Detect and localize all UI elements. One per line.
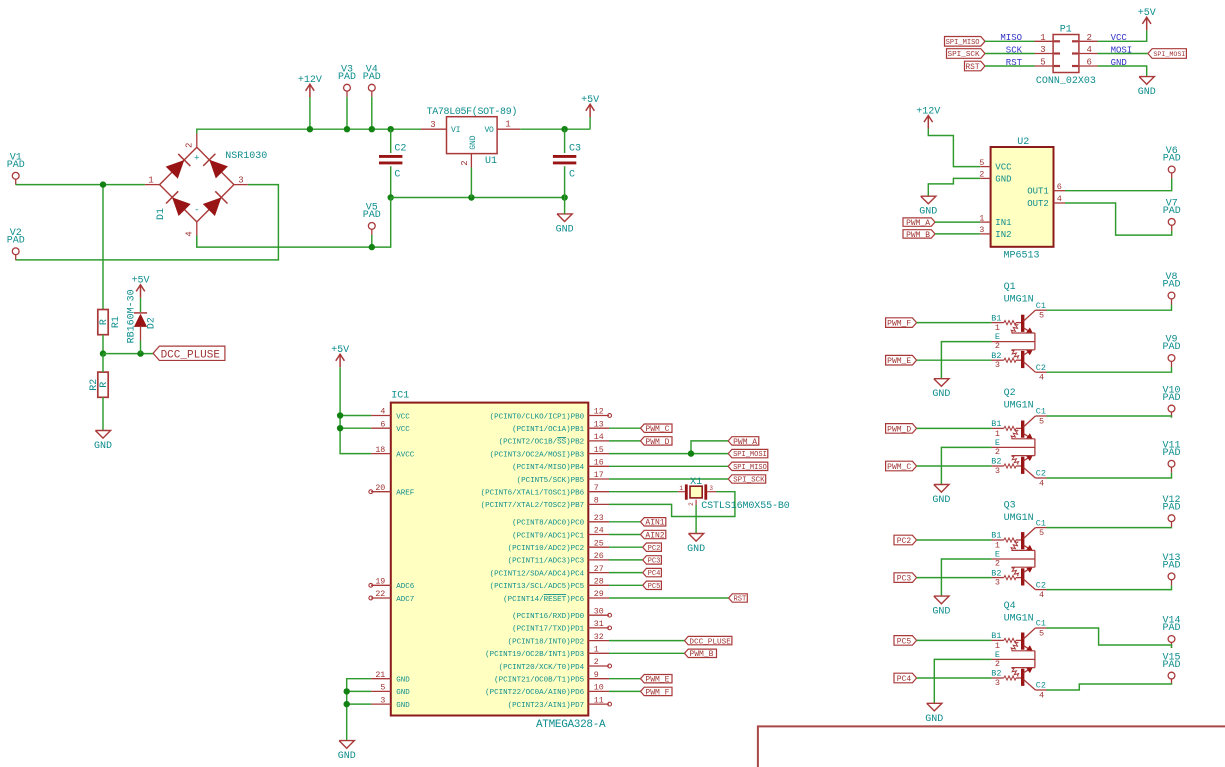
global label PWM_E at IC1 bbox=[641, 675, 673, 685]
svg-text:PWM_E: PWM_E bbox=[645, 676, 669, 685]
svg-text:GND: GND bbox=[338, 751, 356, 762]
global label SPI_MOSI at IC1 bbox=[728, 449, 768, 459]
junction at (691.0,453.6) bbox=[688, 450, 694, 456]
IC1 pin 4 (VCC) left bbox=[371, 415, 391, 417]
U2 pin 5 (VCC) bbox=[980, 166, 990, 168]
IC1 pin 26 ((PCINT11/ADC3)PC3) right bbox=[588, 559, 609, 561]
U1 pin 1 (VO) bbox=[497, 128, 520, 130]
U2 pin 6 (OUT1) bbox=[1054, 190, 1066, 192]
svg-text:20: 20 bbox=[375, 484, 385, 493]
svg-text:C2: C2 bbox=[1036, 580, 1046, 590]
svg-text:PWM_F: PWM_F bbox=[645, 688, 669, 697]
wire U2 GND bbox=[928, 178, 980, 196]
svg-text:PAD: PAD bbox=[1162, 660, 1180, 671]
svg-text:(PCINT12/SDA/ADC4)PC4: (PCINT12/SDA/ADC4)PC4 bbox=[490, 570, 585, 578]
wire X1 pin2 to gnd bbox=[695, 505, 697, 534]
global label DCC_PLUSE (large) bbox=[153, 346, 225, 361]
wire V5 drop bbox=[371, 235, 373, 247]
wire VCC pin6 branch bbox=[340, 427, 371, 429]
svg-text:(PCINT3/OC2A/MOSI)PB3: (PCINT3/OC2A/MOSI)PB3 bbox=[490, 451, 585, 459]
svg-text:PWM_F: PWM_F bbox=[887, 319, 911, 328]
IC1 pin 5 (GND) left bbox=[371, 690, 391, 692]
junction at (390.7,197.5) bbox=[388, 194, 394, 200]
svg-text:UMG1N: UMG1N bbox=[1004, 401, 1034, 412]
svg-text:14: 14 bbox=[594, 433, 604, 442]
svg-text:22: 22 bbox=[375, 590, 385, 599]
global label PWM_E at Q1 bbox=[886, 355, 917, 366]
ground under R2 bbox=[94, 431, 112, 453]
svg-text:B1: B1 bbox=[991, 631, 1001, 641]
svg-text:1: 1 bbox=[594, 646, 599, 655]
wire PWM_B to U2 bbox=[935, 233, 980, 235]
svg-text:PAD: PAD bbox=[1162, 280, 1180, 291]
svg-text:PC2: PC2 bbox=[648, 545, 661, 553]
svg-text:IN1: IN1 bbox=[995, 218, 1011, 228]
wire GND pin5 branch bbox=[347, 690, 371, 692]
overbar on RESET (PC6 name) bbox=[544, 594, 567, 596]
svg-text:3: 3 bbox=[380, 696, 385, 705]
svg-text:31: 31 bbox=[594, 620, 604, 629]
svg-text:(PCINT0/CLKO/ICP1)PB0: (PCINT0/CLKO/ICP1)PB0 bbox=[490, 413, 585, 421]
svg-text:OUT2: OUT2 bbox=[1027, 199, 1049, 209]
IC1 pin 1 ((PCINT19/OC2B/INT1)PD3) right bbox=[588, 652, 609, 654]
svg-text:PAD: PAD bbox=[1162, 448, 1180, 459]
capacitor C2 bbox=[379, 156, 402, 163]
svg-text:1: 1 bbox=[995, 429, 1000, 439]
ground at Q4 bbox=[925, 703, 943, 725]
wire PWM_C to Q2 B2 bbox=[917, 465, 992, 467]
svg-text:AIN2: AIN2 bbox=[645, 531, 664, 540]
global label PC2 at IC1 bbox=[643, 543, 662, 553]
wire PD5 to PWM_E bbox=[609, 678, 641, 680]
svg-text:DCC_PLUSE: DCC_PLUSE bbox=[689, 638, 731, 646]
wire +12V to U2 VCC bbox=[928, 129, 980, 167]
svg-text:PC3: PC3 bbox=[897, 574, 912, 583]
svg-text:SPI_SCK: SPI_SCK bbox=[948, 51, 980, 59]
svg-text:VCC: VCC bbox=[396, 413, 410, 421]
svg-text:1: 1 bbox=[995, 540, 1000, 550]
svg-text:VCC: VCC bbox=[396, 426, 410, 434]
svg-text:1: 1 bbox=[1040, 33, 1045, 43]
wire PD6 to PWM_F bbox=[609, 690, 641, 692]
svg-text:(PCINT20/XCK/T0)PD4: (PCINT20/XCK/T0)PD4 bbox=[499, 664, 585, 672]
P1 pin 3 (SCK) bbox=[1035, 53, 1054, 55]
IC1 pin 19 (ADC6) left bbox=[371, 584, 391, 586]
svg-text:UMG1N: UMG1N bbox=[1004, 513, 1034, 524]
IC1 pin 24 ((PCINT9/ADC1)PC1) right bbox=[588, 534, 609, 536]
svg-text:RST: RST bbox=[733, 596, 746, 604]
wire OUT2 to V7 bbox=[1065, 203, 1172, 235]
wire PD3 to PWM_B bbox=[609, 652, 685, 654]
svg-text:3: 3 bbox=[995, 466, 1000, 476]
pad V9 bbox=[1162, 335, 1180, 367]
svg-text:RST: RST bbox=[965, 63, 979, 72]
wire R1 to D2 node bbox=[103, 353, 153, 355]
svg-text:3: 3 bbox=[995, 577, 1000, 587]
svg-text:GND: GND bbox=[687, 544, 705, 555]
svg-text:(PCINT23/AIN1)PD7: (PCINT23/AIN1)PD7 bbox=[508, 702, 585, 710]
junction at (340.1,428.2) bbox=[337, 425, 343, 431]
wire PB1 to PWM_C bbox=[609, 427, 641, 429]
power +12V at U2 bbox=[916, 106, 940, 128]
svg-text:GND: GND bbox=[995, 174, 1011, 184]
wire bridge pin2 up to +12V rail bbox=[196, 236, 198, 248]
svg-text:5: 5 bbox=[1039, 416, 1044, 426]
global label PC4 at Q4 bbox=[894, 673, 917, 684]
svg-text:PAD: PAD bbox=[1162, 561, 1180, 572]
IC1 pin 15 ((PCINT3/OC2A/MOSI)PB3) right bbox=[588, 453, 609, 455]
wire P1 MOSI to SPI_MOSI bbox=[1098, 53, 1148, 55]
global label PWM_D at Q2 bbox=[886, 424, 917, 435]
svg-text:Q3: Q3 bbox=[1004, 501, 1016, 512]
svg-text:GND: GND bbox=[396, 689, 410, 697]
svg-text:26: 26 bbox=[594, 552, 604, 561]
svg-text:PAD: PAD bbox=[363, 72, 381, 83]
pad V14 bbox=[1162, 616, 1180, 648]
svg-text:4: 4 bbox=[1039, 478, 1044, 488]
svg-text:3: 3 bbox=[995, 678, 1000, 688]
wire ground rail under U1 bbox=[391, 197, 565, 199]
svg-text:UMG1N: UMG1N bbox=[1004, 295, 1034, 306]
svg-text:PAD: PAD bbox=[1162, 623, 1180, 634]
global label RST at P1 bbox=[965, 61, 986, 72]
IC1 pin 12 ((PCINT0/CLKO/ICP1)PB0) right bbox=[588, 415, 609, 417]
svg-text:2: 2 bbox=[1087, 33, 1092, 43]
sheet title block border bbox=[758, 726, 1225, 767]
no-connect circle at (370.8,598.0) bbox=[369, 596, 373, 600]
svg-text:(PCINT2/OC1B/SS)PB2: (PCINT2/OC1B/SS)PB2 bbox=[499, 439, 585, 447]
IC1 pin 16 ((PCINT4/MISO)PB4) right bbox=[588, 465, 609, 467]
svg-text:2: 2 bbox=[688, 502, 695, 506]
wire R1 bottom bbox=[102, 335, 104, 354]
svg-text:2: 2 bbox=[995, 341, 1000, 351]
svg-text:5: 5 bbox=[380, 684, 385, 693]
global label RST at IC1 bbox=[729, 594, 748, 604]
svg-text:RB160M-30: RB160M-30 bbox=[126, 289, 137, 343]
wire PC4 label bbox=[609, 572, 643, 574]
wire PWM_E to Q1 B2 bbox=[917, 359, 992, 361]
global label AIN1 bbox=[641, 518, 666, 528]
svg-text:Q2: Q2 bbox=[1004, 388, 1016, 399]
global label PC5 at Q4 bbox=[894, 636, 917, 647]
global label SPI_SCK at P1 bbox=[947, 49, 986, 60]
svg-text:ADC6: ADC6 bbox=[396, 583, 415, 591]
global label SPI_MISO at IC1 bbox=[728, 462, 768, 472]
svg-text:29: 29 bbox=[594, 590, 604, 599]
power +5V at IC1 bbox=[331, 345, 349, 367]
junction at (390.7,129.2) bbox=[388, 126, 394, 132]
svg-text:(PCINT19/OC2B/INT1)PD3: (PCINT19/OC2B/INT1)PD3 bbox=[485, 651, 585, 659]
svg-text:GND: GND bbox=[469, 135, 478, 150]
resistor R1 bbox=[98, 310, 122, 335]
svg-text:IN2: IN2 bbox=[995, 230, 1011, 240]
pad V10 bbox=[1162, 385, 1180, 417]
svg-text:TA78L05F(SOT-89): TA78L05F(SOT-89) bbox=[427, 106, 517, 118]
wire PWM_A to U2 bbox=[935, 221, 980, 223]
svg-text:3: 3 bbox=[430, 120, 435, 130]
svg-text:Q4: Q4 bbox=[1004, 601, 1016, 612]
global label PWM_B at U2 bbox=[903, 230, 935, 240]
IC1 pin 10 ((PCINT22/OC0A/AIN0)PD6) right bbox=[588, 690, 609, 692]
no-connect circle at (609.6,666.0) bbox=[608, 664, 612, 668]
svg-text:U1: U1 bbox=[485, 156, 497, 167]
svg-text:2: 2 bbox=[594, 658, 599, 667]
global label PWM_D bbox=[641, 437, 673, 447]
svg-text:GND: GND bbox=[396, 677, 410, 685]
svg-text:(PCINT8/ADC0)PC0: (PCINT8/ADC0)PC0 bbox=[512, 520, 585, 528]
P1 pin 2 (VCC) bbox=[1079, 40, 1098, 42]
wire PB5 to SPI_SCK bbox=[609, 478, 728, 480]
wire RST to P1 bbox=[985, 65, 1035, 67]
wire PC3 label bbox=[609, 559, 643, 561]
svg-text:28: 28 bbox=[594, 578, 604, 587]
ground at Q2 bbox=[932, 485, 950, 507]
svg-text:U2: U2 bbox=[1017, 137, 1029, 148]
svg-text:PWM_D: PWM_D bbox=[645, 438, 669, 447]
svg-text:12: 12 bbox=[594, 408, 604, 417]
IC1 pin 31 ((PCINT17/TXD)PD1) right bbox=[588, 627, 609, 629]
svg-text:19: 19 bbox=[375, 578, 385, 587]
global label SPI_MOSI at P1 bbox=[1148, 49, 1187, 59]
overbar on SS (PB2 name) bbox=[557, 437, 566, 439]
IC1 pin 9 ((PCINT21/OC0B/T1)PD5) right bbox=[588, 678, 609, 680]
svg-text:R: R bbox=[99, 382, 110, 388]
svg-text:4: 4 bbox=[1039, 590, 1044, 600]
svg-text:SPI_MISO: SPI_MISO bbox=[946, 39, 980, 47]
svg-text:(PCINT21/OC0B/T1)PD5: (PCINT21/OC0B/T1)PD5 bbox=[494, 677, 585, 685]
svg-text:1: 1 bbox=[995, 641, 1000, 651]
svg-text:6: 6 bbox=[1057, 182, 1062, 192]
svg-text:GND: GND bbox=[932, 495, 950, 506]
wire PC0 to AIN1 bbox=[609, 521, 641, 523]
IC1 pin 7 ((PCINT6/XTAL1/TOSC1)PB6) right bbox=[588, 491, 609, 493]
no-connect circle at (370.8,491.7) bbox=[369, 490, 373, 494]
svg-text:(PCINT18/INT0)PD2: (PCINT18/INT0)PD2 bbox=[508, 638, 585, 646]
svg-text:P1: P1 bbox=[1060, 25, 1072, 36]
wire Q1 C2 to V9 bbox=[1047, 367, 1172, 372]
bridge diode 4-1 (D1 bottom-left) bbox=[166, 191, 191, 216]
global label PWM_A at U2 bbox=[903, 218, 935, 228]
svg-text:AVCC: AVCC bbox=[396, 451, 415, 459]
wire PD2 to DCC_PLUSE bbox=[609, 640, 685, 642]
diode D2 RB160M-30 bbox=[134, 314, 147, 327]
svg-text:PWM_B: PWM_B bbox=[906, 231, 930, 240]
global label PWM_A at IC1 bbox=[728, 437, 759, 447]
svg-text:PAD: PAD bbox=[1162, 393, 1180, 404]
IC1 pin 32 ((PCINT18/INT0)PD2) right bbox=[588, 640, 609, 642]
svg-text:+5V: +5V bbox=[581, 95, 599, 106]
IC1 pin 30 ((PCINT16/RXD)PD0) right bbox=[588, 614, 609, 616]
svg-text:VCC: VCC bbox=[995, 163, 1012, 173]
bridge D1 pin stubs bbox=[145, 184, 160, 186]
svg-text:5: 5 bbox=[1040, 58, 1045, 68]
svg-text:4: 4 bbox=[1057, 194, 1062, 204]
IC1 pin 23 ((PCINT8/ADC0)PC0) right bbox=[588, 521, 609, 523]
svg-text:PC3: PC3 bbox=[648, 557, 661, 565]
svg-text:1: 1 bbox=[679, 485, 683, 492]
svg-text:CONN_02X03: CONN_02X03 bbox=[1036, 76, 1096, 87]
global label PWM_B at IC1 bbox=[685, 649, 717, 659]
svg-text:C2: C2 bbox=[1036, 363, 1046, 373]
svg-text:1: 1 bbox=[995, 323, 1000, 333]
X1 pin stubs bbox=[678, 491, 685, 493]
svg-text:6: 6 bbox=[1087, 58, 1092, 68]
pad V4 bbox=[363, 64, 381, 96]
global label PWM_F at Q1 bbox=[886, 318, 917, 329]
IC1 pin 25 ((PCINT10/ADC2)PC2) right bbox=[588, 546, 609, 548]
IC1 pin 18 (AVCC) left bbox=[371, 453, 391, 455]
svg-text:VO: VO bbox=[485, 126, 495, 135]
U2 pin 3 (IN2) bbox=[980, 233, 990, 235]
wire Q1 C1 to V8 bbox=[1047, 305, 1172, 311]
svg-text:OUT1: OUT1 bbox=[1027, 187, 1049, 197]
wire GND pin3 branch bbox=[347, 703, 371, 705]
wire PWM_D to Q2 B1 bbox=[917, 427, 992, 429]
svg-text:(PCINT22/OC0A/AIN0)PD6: (PCINT22/OC0A/AIN0)PD6 bbox=[485, 689, 585, 697]
global label PC3 at IC1 bbox=[643, 556, 662, 566]
junction at (140.5,353.6) bbox=[137, 350, 143, 356]
svg-text:+5V: +5V bbox=[331, 345, 349, 356]
svg-text:PAD: PAD bbox=[1162, 342, 1180, 353]
svg-text:27: 27 bbox=[594, 565, 604, 574]
wire Q2 E to gnd bbox=[941, 447, 991, 484]
wire Q2 C1 to V10 bbox=[1047, 416, 1172, 418]
wire OUT1 to V6 bbox=[1065, 179, 1172, 191]
svg-text:GND: GND bbox=[1138, 87, 1156, 98]
power +12V top bbox=[298, 75, 322, 97]
svg-text:4: 4 bbox=[380, 408, 385, 417]
svg-text:7: 7 bbox=[594, 484, 599, 493]
global label SPI_MISO at P1 bbox=[945, 37, 986, 47]
svg-text:AREF: AREF bbox=[396, 490, 414, 498]
wire R2 bottom bbox=[102, 397, 104, 430]
global label PWM_C bbox=[641, 424, 673, 434]
svg-text:SPI_SCK: SPI_SCK bbox=[733, 477, 765, 485]
svg-text:PWM_C: PWM_C bbox=[645, 425, 669, 434]
svg-text:AIN1: AIN1 bbox=[645, 519, 664, 528]
svg-text:C1: C1 bbox=[1036, 518, 1046, 528]
svg-text:PC4: PC4 bbox=[897, 675, 912, 684]
wire P1 VCC to +5V bbox=[1098, 30, 1147, 41]
pad V8 bbox=[1162, 272, 1180, 304]
svg-text:5: 5 bbox=[1039, 628, 1044, 638]
pad V6 bbox=[1163, 146, 1181, 178]
bridge rectifier D1 body bbox=[160, 147, 234, 222]
svg-text:B1: B1 bbox=[991, 419, 1001, 429]
wire +5V stub bbox=[589, 117, 591, 129]
svg-text:4: 4 bbox=[1087, 45, 1092, 55]
IC U2 MP6513 body bbox=[991, 147, 1054, 247]
svg-text:25: 25 bbox=[594, 539, 604, 548]
wire Q2 C2 to V11 bbox=[1047, 473, 1172, 478]
svg-text:PC5: PC5 bbox=[648, 583, 661, 591]
no-connect circle at (609.6,615.2) bbox=[608, 613, 612, 617]
svg-text:PC2: PC2 bbox=[897, 537, 912, 546]
svg-text:10: 10 bbox=[594, 684, 604, 693]
svg-text:PWM_E: PWM_E bbox=[887, 357, 911, 366]
svg-text:3: 3 bbox=[238, 176, 243, 186]
svg-text:DCC_PLUSE: DCC_PLUSE bbox=[161, 349, 221, 361]
junction at (103,184.6) bbox=[100, 181, 106, 187]
svg-text:VI: VI bbox=[451, 126, 461, 135]
svg-text:3: 3 bbox=[995, 360, 1000, 370]
svg-text:PWM_B: PWM_B bbox=[689, 650, 713, 659]
svg-text:PWM_A: PWM_A bbox=[906, 219, 930, 228]
wire PC1 to AIN2 bbox=[609, 534, 641, 536]
svg-text:Q1: Q1 bbox=[1004, 282, 1016, 293]
svg-text:GND: GND bbox=[556, 224, 574, 235]
svg-text:SPI_MOSI: SPI_MOSI bbox=[733, 451, 767, 459]
svg-text:+12V: +12V bbox=[298, 75, 322, 86]
svg-text:2: 2 bbox=[995, 659, 1000, 669]
wire Q1 E to gnd bbox=[941, 342, 991, 379]
wire V1 branch down to R1 bbox=[102, 185, 104, 310]
svg-text:32: 32 bbox=[594, 633, 604, 642]
ground at Q1 bbox=[932, 379, 950, 401]
wire C3 gnd stub bbox=[564, 198, 566, 214]
ground at Q3 bbox=[932, 596, 950, 618]
IC1 pin 17 ((PCINT5/SCK)PB5) right bbox=[588, 478, 609, 480]
svg-text:(PCINT17/TXD)PD1: (PCINT17/TXD)PD1 bbox=[512, 626, 585, 634]
wire PC2 to Q3 B1 bbox=[917, 539, 992, 541]
wire Q4 C2 to V15 bbox=[1047, 684, 1172, 690]
capacitor C3 bbox=[553, 156, 576, 163]
svg-text:SPI_MISO: SPI_MISO bbox=[733, 464, 767, 472]
svg-text:4: 4 bbox=[184, 231, 194, 236]
svg-text:CSTLS16M0X55-B0: CSTLS16M0X55-B0 bbox=[701, 501, 790, 512]
global label AIN2 bbox=[641, 530, 666, 540]
pad V11 bbox=[1162, 441, 1180, 473]
wire R1-R2 link bbox=[102, 354, 104, 373]
svg-text:C1: C1 bbox=[1036, 301, 1046, 311]
bridge diode 3-2 (D1 top-right) bbox=[203, 154, 228, 179]
global label PC5 at IC1 bbox=[643, 581, 662, 591]
IC IC1 ATMEGA328-A body bbox=[391, 403, 589, 716]
wire PWM_F to Q1 B1 bbox=[917, 322, 992, 324]
no-connect circle at (609.6,704.1) bbox=[608, 702, 612, 706]
svg-text:C1: C1 bbox=[1036, 407, 1046, 417]
no-connect circle at (609.6,627.9000000000001) bbox=[608, 626, 612, 630]
pad V15 bbox=[1162, 652, 1180, 684]
wire PC6 to RST bbox=[609, 597, 729, 599]
svg-text:(PCINT9/ADC1)PC1: (PCINT9/ADC1)PC1 bbox=[512, 532, 585, 540]
svg-text:3: 3 bbox=[709, 485, 713, 492]
wire C2 bottom bbox=[390, 166, 392, 197]
junction at (471.4,197.5) bbox=[468, 194, 474, 200]
wire SPI_MISO to P1 bbox=[985, 40, 1035, 42]
svg-text:PAD: PAD bbox=[7, 236, 25, 247]
IC1 pin 6 (VCC) left bbox=[371, 427, 391, 429]
junction at (340.1,415.5) bbox=[337, 412, 343, 418]
svg-text:PAD: PAD bbox=[7, 160, 25, 171]
svg-text:C: C bbox=[394, 170, 400, 181]
svg-text:C1: C1 bbox=[1036, 619, 1046, 629]
svg-text:(PCINT14/RESET)PC6: (PCINT14/RESET)PC6 bbox=[503, 596, 585, 604]
wire PB3 branch to PWM_A bbox=[691, 441, 728, 454]
junction at (309.9,129.2) bbox=[307, 126, 313, 132]
svg-text:9: 9 bbox=[594, 671, 599, 680]
pad V2 bbox=[7, 228, 25, 260]
transistor Q1 UMG1N pair bbox=[992, 310, 1047, 372]
svg-text:GND: GND bbox=[919, 207, 937, 218]
pad V5 bbox=[363, 203, 381, 235]
svg-text:IC1: IC1 bbox=[391, 391, 409, 402]
junction at (103,353.6) bbox=[100, 350, 106, 356]
svg-text:C: C bbox=[569, 170, 575, 181]
U1 pin 3 (VI) bbox=[421, 128, 447, 130]
svg-text:(PCINT16/RXD)PD0: (PCINT16/RXD)PD0 bbox=[512, 613, 585, 621]
junction at (564.6,129.2) bbox=[561, 126, 567, 132]
